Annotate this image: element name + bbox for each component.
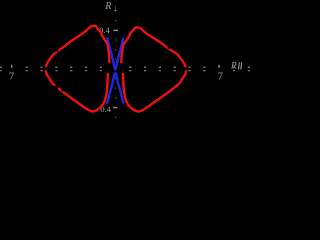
- svg-text:⊥: ⊥: [113, 5, 118, 12]
- red arc lower-left: [46, 70, 108, 112]
- red arc lower-right: [123, 70, 187, 112]
- major ticks: [11, 30, 220, 109]
- blue strand lower-left: [107, 71, 115, 103]
- red curve arcs: [46, 26, 187, 112]
- blue strand upper-right: [115, 39, 123, 71]
- y-axis dots: [115, 10, 116, 118]
- black cuts (axis-line / sampling gaps): [43, 45, 189, 99]
- svg-text:R: R: [230, 61, 237, 71]
- red arc upper-left: [46, 26, 110, 69]
- svg-text:R: R: [104, 1, 111, 12]
- x-axis minor tick dash pairs: [0, 67, 250, 72]
- blue curve strands (under red): [107, 39, 123, 103]
- red arc upper-right: [121, 27, 186, 68]
- svg-text:7: 7: [218, 70, 224, 82]
- svg-text:7: 7: [9, 70, 15, 82]
- blue strand lower-right: [115, 71, 123, 103]
- blue strand upper-left: [107, 39, 115, 71]
